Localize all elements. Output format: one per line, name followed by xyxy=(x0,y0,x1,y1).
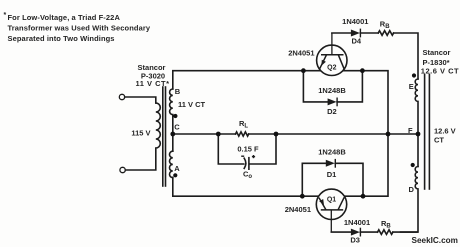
svg-text:Transformer was Used With Seco: Transformer was Used With Secondary xyxy=(8,23,151,32)
svg-text:C: C xyxy=(174,123,180,132)
svg-text:SeekIC.com: SeekIC.com xyxy=(412,236,458,245)
svg-text:D1: D1 xyxy=(327,170,337,179)
svg-text:RL: RL xyxy=(239,119,248,130)
svg-text:115 V: 115 V xyxy=(131,129,150,138)
svg-text:*: * xyxy=(4,12,7,19)
svg-text:2N4051: 2N4051 xyxy=(288,49,314,58)
svg-text:1N4001: 1N4001 xyxy=(342,17,368,26)
svg-text:Q2: Q2 xyxy=(327,64,336,71)
svg-text:0.15 F: 0.15 F xyxy=(237,144,259,153)
svg-text:1N4001: 1N4001 xyxy=(344,218,370,227)
svg-text:2N4051: 2N4051 xyxy=(285,205,311,214)
svg-text:B: B xyxy=(175,87,181,96)
svg-text:A: A xyxy=(174,164,180,173)
svg-text:1N248B: 1N248B xyxy=(318,148,346,157)
svg-text:CT: CT xyxy=(434,136,444,145)
svg-text:P-1830*: P-1830* xyxy=(423,58,450,67)
svg-text:D4: D4 xyxy=(352,36,362,45)
svg-text:Q1: Q1 xyxy=(327,196,336,203)
svg-text:D3: D3 xyxy=(350,236,360,245)
svg-text:F: F xyxy=(408,126,413,135)
svg-text:1N248B: 1N248B xyxy=(318,86,346,95)
svg-text:D: D xyxy=(409,185,415,194)
svg-text:Separated into Two Windings: Separated into Two Windings xyxy=(8,34,115,43)
svg-text:Co: Co xyxy=(243,169,252,180)
svg-text:12.6 V CT: 12.6 V CT xyxy=(421,67,459,76)
svg-text:For Low-Voltage, a Triad F-22A: For Low-Voltage, a Triad F-22A xyxy=(8,13,121,22)
svg-text:D2: D2 xyxy=(327,107,337,116)
svg-text:Stancor: Stancor xyxy=(423,48,451,57)
svg-text:RB: RB xyxy=(381,219,391,230)
svg-text:11 V CT*: 11 V CT* xyxy=(135,79,169,88)
svg-text:E: E xyxy=(409,82,414,91)
svg-text:RB: RB xyxy=(380,20,390,31)
svg-text:12.6 V: 12.6 V xyxy=(434,126,456,135)
svg-text:11 V CT: 11 V CT xyxy=(178,100,206,109)
